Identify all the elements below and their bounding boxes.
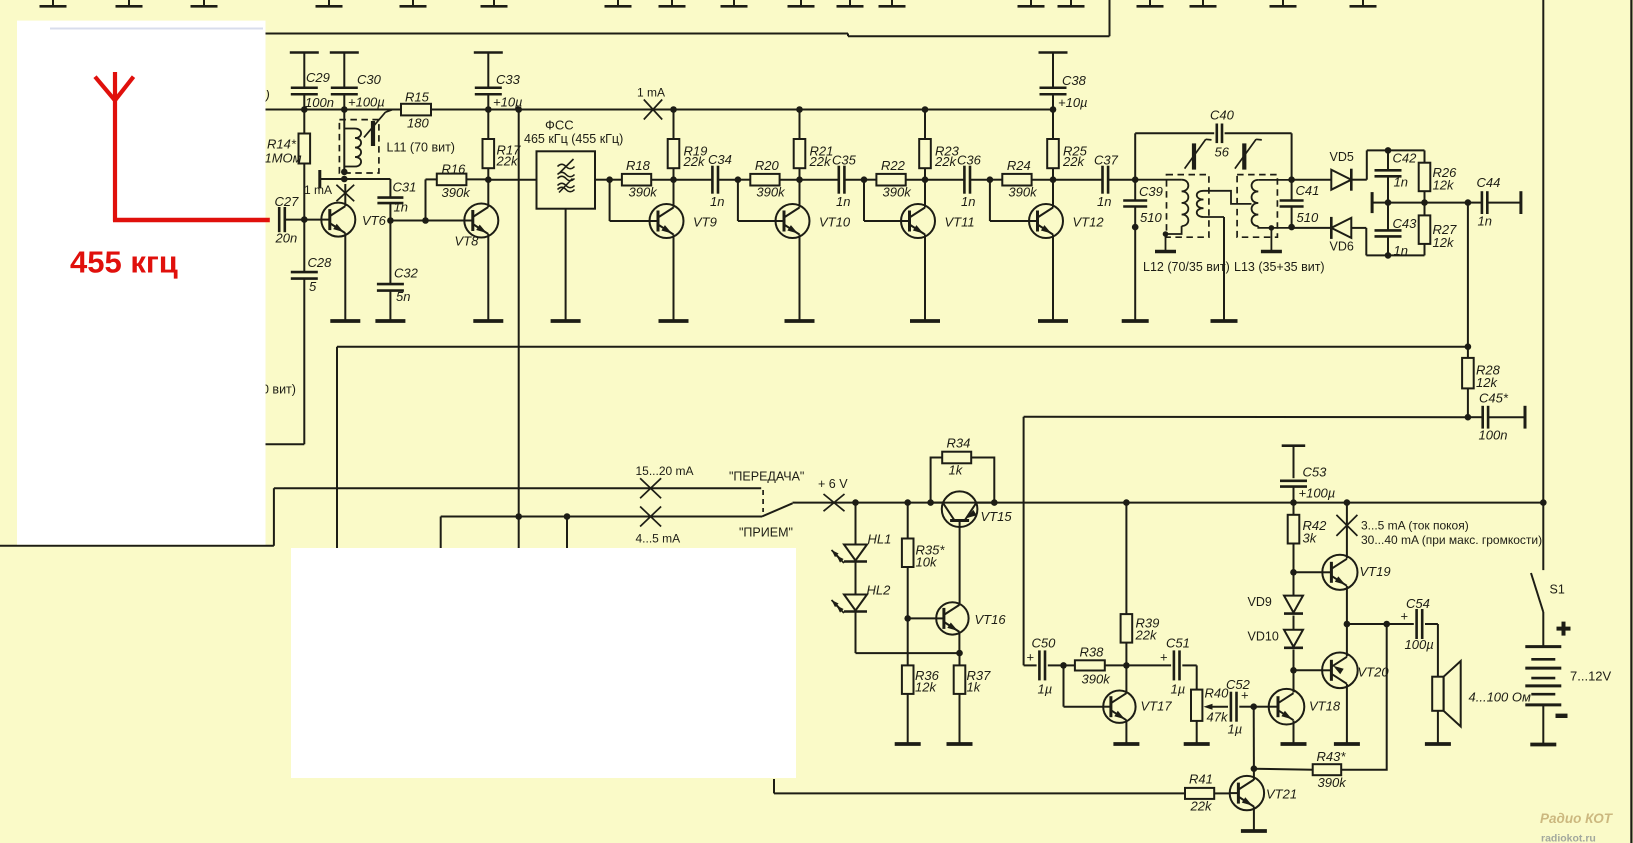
text fragment of covered coil label: [264, 88, 270, 103]
svg-text:510: 510: [1140, 210, 1162, 225]
wire main supply bus y=109.5: [266, 109, 1054, 111]
resistor R21: [794, 110, 834, 180]
wire volume line y=417: [1024, 417, 1468, 666]
svg-text:10k: 10k: [916, 555, 938, 570]
svg-text:0 вит): 0 вит): [262, 383, 296, 397]
node HL chain top: [852, 499, 859, 506]
svg-text:1n: 1n: [836, 194, 850, 209]
text 3...5 mA (ток покоя): [1361, 519, 1469, 533]
node bus L11: [341, 106, 348, 113]
svg-text:R20: R20: [755, 158, 780, 173]
wire VT20 base: [1294, 669, 1322, 671]
wire second feed down: [566, 517, 568, 550]
node R35 top: [904, 499, 911, 506]
svg-text:VT17: VT17: [1141, 699, 1173, 714]
wire VT19 base from R42 node: [1294, 571, 1323, 573]
ground VT6: [330, 319, 360, 323]
wire VT10 collector: [799, 180, 801, 208]
svg-text:C30: C30: [357, 72, 382, 87]
ground VT9: [659, 319, 689, 323]
resistor R18: [610, 158, 674, 200]
node VT9 collector: [670, 176, 677, 183]
resistor R25: [1047, 110, 1087, 180]
wire VT8 collector: [487, 180, 489, 207]
wire VT6 emitter to ground: [344, 233, 346, 321]
node supply to switch: [1540, 499, 1547, 506]
wire VT20 emitter up: [1346, 624, 1348, 657]
node output VT19 VT20: [1344, 621, 1351, 628]
wire jog to VT10 base: [738, 180, 776, 221]
svg-text:+: +: [1241, 688, 1249, 703]
svg-text:1 mA: 1 mA: [304, 183, 332, 197]
svg-text:22k: 22k: [934, 154, 957, 169]
wiper arrow R40 from C52: [1204, 704, 1229, 710]
node VT12 collector: [1050, 176, 1057, 183]
svg-text:22k: 22k: [683, 154, 706, 169]
transformer L13: [1237, 175, 1292, 251]
svg-text:+100µ: +100µ: [348, 95, 385, 110]
wire base VT6: [304, 219, 321, 221]
capacitor C30: [330, 53, 385, 110]
svg-text:+: +: [1027, 650, 1035, 665]
transistor VT17: [1103, 691, 1172, 723]
wire VT16 emitter: [958, 632, 960, 653]
switch S1: [1531, 503, 1565, 646]
ground link common: [1211, 319, 1238, 323]
terminal after C44: [1519, 191, 1522, 214]
svg-text:510: 510: [1297, 210, 1319, 225]
wire VT17 collector: [1125, 665, 1127, 693]
text battery minus: [1556, 714, 1568, 718]
resistor R15: [401, 90, 431, 131]
wire VT21 collector: [1253, 769, 1255, 780]
svg-text:R18: R18: [626, 158, 651, 173]
transistor VT12: [1029, 204, 1104, 238]
svg-text:VT19: VT19: [1360, 564, 1391, 579]
wire L11 node to C31: [344, 179, 390, 197]
resistor R17: [483, 110, 522, 180]
text L13 label: [1234, 260, 1325, 274]
measuring point X 15-20 mA: [636, 464, 694, 498]
wire C39 to ground: [1134, 227, 1136, 321]
antenna symbol (red): [95, 72, 270, 221]
svg-text:VD5: VD5: [1330, 150, 1354, 164]
capacitor C32: [377, 221, 419, 322]
wire VT8 emitter to ground: [487, 234, 489, 321]
ground C32: [375, 319, 405, 323]
resistor R24: [990, 158, 1053, 200]
node C40 right: [1288, 176, 1295, 183]
resistor R28: [1462, 347, 1501, 418]
transistor VT16: [936, 602, 1006, 634]
resistor R35: [902, 503, 945, 619]
node C36 out: [987, 176, 994, 183]
svg-text:VT6: VT6: [362, 213, 387, 228]
transformer L12: [1135, 175, 1251, 251]
svg-text:22k: 22k: [496, 154, 519, 169]
node C37 out: [1132, 176, 1139, 183]
wire long AGC return y=347: [337, 347, 1468, 549]
svg-text:HL2: HL2: [867, 583, 892, 598]
text covered coil label 0 вит): [262, 383, 296, 397]
transistor VT19: [1322, 555, 1390, 590]
svg-text:"ПРИЕМ": "ПРИЕМ": [739, 526, 793, 540]
capacitor C54: [1387, 596, 1438, 652]
node R26 R27 junction: [1421, 199, 1428, 206]
svg-text:1k: 1k: [949, 463, 964, 478]
resistor R14: [265, 110, 311, 220]
wire C50 node to VT17 base: [1064, 665, 1104, 706]
svg-text:R34: R34: [947, 436, 971, 451]
svg-text:12k: 12k: [1433, 178, 1455, 193]
diode VD6: [1292, 217, 1354, 254]
svg-text:C29: C29: [306, 70, 330, 85]
svg-text:VT10: VT10: [819, 215, 851, 230]
ground VT20: [1334, 742, 1360, 746]
svg-text:"ПЕРЕДАЧА": "ПЕРЕДАЧА": [729, 470, 804, 484]
transistor VT9: [650, 204, 717, 238]
svg-text:C32: C32: [394, 266, 419, 281]
node bus R14: [301, 106, 308, 113]
capacitor C44: [1468, 175, 1521, 229]
node feed-down junction: [515, 513, 522, 520]
svg-text:C37: C37: [1094, 153, 1119, 168]
svg-text:VD9: VD9: [1248, 595, 1272, 609]
node output to C54 and R43: [1383, 621, 1390, 628]
white mask box upper-left: [17, 21, 266, 545]
wire VD6 to detector bottom rail: [1351, 228, 1424, 256]
wire VD5 to detector top rail: [1351, 150, 1424, 179]
ground VT17: [1113, 742, 1139, 746]
svg-text:VT20: VT20: [1358, 665, 1390, 680]
measuring point X 1mA at VT6: [304, 183, 354, 201]
node R16 base leg: [422, 217, 429, 224]
transistor VT10: [776, 204, 851, 238]
svg-text:C33: C33: [496, 72, 521, 87]
node R35 bottom VT16 base: [904, 615, 911, 622]
svg-text:22k: 22k: [1062, 154, 1085, 169]
svg-text:C28: C28: [308, 255, 333, 270]
capacitor C41: [1280, 180, 1320, 227]
resistor R27: [1419, 203, 1457, 256]
resistor R39: [1121, 503, 1160, 666]
svg-text:390k: 390k: [442, 185, 472, 200]
diode VD9: [1248, 572, 1304, 613]
watermark Радио КОТ: [1540, 811, 1614, 843]
capacitor C52: [1226, 677, 1254, 737]
svg-text:C36: C36: [957, 153, 982, 168]
svg-text:R14*: R14*: [267, 137, 297, 152]
svg-text:R41: R41: [1189, 772, 1213, 787]
node R28 top: [1465, 343, 1472, 350]
svg-text:+: +: [1160, 650, 1168, 665]
svg-text:30...40 mA (при макс. громкост: 30...40 mA (при макс. громкости): [1361, 533, 1542, 547]
wire jog to VT11 base: [864, 180, 901, 221]
svg-text:HL1: HL1: [868, 532, 892, 547]
resistor R38: [1064, 645, 1127, 687]
svg-text:C43: C43: [1393, 216, 1418, 231]
resistor R16: [426, 162, 489, 221]
node R39 top: [1123, 499, 1130, 506]
svg-text:VT8: VT8: [455, 234, 480, 249]
svg-text:1n: 1n: [394, 200, 408, 215]
svg-text:22k: 22k: [809, 154, 832, 169]
svg-text:C51: C51: [1166, 636, 1190, 651]
node R34 right: [991, 499, 998, 506]
wire detector output down: [1467, 203, 1469, 347]
node bus R25: [1050, 106, 1057, 113]
wire VT15 emitter right: [976, 502, 994, 504]
svg-text:C40: C40: [1210, 108, 1235, 123]
capacitor C37: [1053, 153, 1135, 210]
resistor R23: [919, 110, 959, 180]
node VT10 collector: [796, 176, 803, 183]
faint scan artifact line in white box: [50, 28, 263, 30]
svg-text:+: +: [1401, 609, 1409, 624]
LED HL1: [832, 503, 892, 563]
transistor VT21: [1230, 776, 1297, 810]
svg-text:180: 180: [407, 116, 429, 131]
ground L13: [1261, 250, 1282, 253]
node VT11 collector: [922, 176, 929, 183]
node VT19 collector top: [1344, 499, 1351, 506]
ground VT10: [785, 319, 815, 323]
svg-text:+ 6 V: + 6 V: [818, 477, 848, 491]
node C52 out: [1250, 703, 1257, 710]
ground battery: [1530, 743, 1556, 747]
wire VT11 collector: [924, 180, 926, 208]
svg-text:R43*: R43*: [1317, 749, 1347, 764]
text battery plus: [1557, 622, 1571, 636]
text ПРИЕМ: [739, 526, 793, 540]
svg-text:L13 (35+35 вит): L13 (35+35 вит): [1234, 260, 1325, 274]
svg-text:100n: 100n: [1479, 428, 1508, 443]
node C41 bottom: [1288, 224, 1295, 231]
wire VT12 emitter to ground: [1052, 235, 1054, 322]
wire base row VT8: [390, 220, 464, 222]
svg-text:1µ: 1µ: [1171, 682, 1186, 697]
text 4...100 Ом: [1469, 690, 1531, 705]
svg-text:4...100 Ом: 4...100 Ом: [1469, 690, 1531, 705]
svg-text:C27: C27: [275, 194, 300, 209]
node VT21 collector: [1251, 765, 1258, 772]
svg-text:1МОм: 1МОм: [265, 151, 302, 166]
ground VT18: [1281, 742, 1307, 746]
svg-text:C44: C44: [1477, 175, 1501, 190]
resistor R37: [954, 653, 991, 744]
wire VT6 collector with X: [344, 184, 346, 206]
capacitor C29: [290, 53, 334, 111]
capacitor C39: [1123, 180, 1163, 227]
diode VD10: [1248, 616, 1304, 648]
transistor VT15: [942, 491, 1013, 603]
wire VT16 base: [908, 617, 937, 619]
node bus R23: [922, 106, 929, 113]
potentiometer R40: [1191, 665, 1229, 744]
resistor R19: [668, 110, 708, 180]
ground VT8: [473, 319, 503, 323]
wire jog to VT9 base: [610, 180, 650, 221]
wire VT18 base: [1254, 706, 1269, 708]
resistor R26: [1419, 150, 1457, 202]
measuring point X 1mA on bus: [637, 86, 665, 120]
svg-text:390k: 390k: [629, 185, 659, 200]
resistor R42: [1288, 503, 1327, 573]
top frame outline of cut-off upper schematic: [266, 0, 1110, 36]
text ПЕРЕДАЧА: [729, 470, 804, 484]
svg-text:1n: 1n: [710, 194, 724, 209]
transistor VT8: [455, 204, 499, 249]
svg-text:4...5 mA: 4...5 mA: [636, 532, 681, 546]
wire FSS output: [595, 179, 610, 181]
ground L12: [1155, 250, 1176, 253]
ground VT21: [1241, 829, 1267, 833]
node bus feed-down: [515, 106, 522, 113]
wire VT19 collector with X: [1346, 503, 1348, 559]
node bus R21: [796, 106, 803, 113]
svg-text:VT15: VT15: [981, 509, 1013, 524]
wire C28 into covered block: [266, 443, 305, 445]
wire VT19 emitter to output node: [1346, 586, 1348, 624]
wire VT18 emitter: [1293, 721, 1295, 745]
svg-text:5n: 5n: [396, 289, 410, 304]
measuring point X 4-5 mA: [640, 507, 661, 527]
node C34 out: [735, 176, 742, 183]
svg-text:VT9: VT9: [693, 215, 717, 230]
filter FSS box: [537, 151, 596, 208]
node L11 bottom: [341, 169, 348, 176]
capacitor C33: [474, 53, 523, 110]
measuring point X VT19: [1336, 515, 1357, 536]
wire switch common +6V: [793, 502, 1544, 504]
svg-text:1µ: 1µ: [1228, 722, 1243, 737]
svg-text:VD10: VD10: [1248, 630, 1279, 644]
text L11 label: [387, 141, 455, 155]
svg-text:1n: 1n: [1097, 194, 1111, 209]
capacitor C43: [1375, 203, 1418, 258]
svg-text:C39: C39: [1139, 184, 1163, 199]
capacitor C27: [275, 194, 305, 246]
node R28 bottom: [1465, 414, 1472, 421]
diode VD5: [1292, 150, 1354, 191]
top row cut-off ground symbols: [40, 0, 1377, 6]
capacitor C28: [291, 220, 332, 445]
svg-text:7...12V: 7...12V: [1570, 669, 1612, 684]
node second feed: [564, 513, 571, 520]
right page border: [1630, 0, 1632, 843]
node VD10 VT20 base: [1290, 667, 1297, 674]
resistor R43 feedback: [1254, 624, 1387, 790]
svg-text:22k: 22k: [1135, 628, 1158, 643]
terminal bar to covered winding: [320, 170, 345, 188]
capacitor C31: [377, 180, 416, 221]
svg-text:15...20 mA: 15...20 mA: [636, 464, 694, 478]
svg-text:C41: C41: [1296, 183, 1320, 198]
svg-text:455 кгц: 455 кгц: [70, 245, 178, 280]
text 7...12V: [1570, 669, 1612, 684]
capacitor C38: [1039, 53, 1088, 111]
node FSS output: [606, 176, 613, 183]
node VT8 collector: [485, 176, 492, 183]
text ФСС: [545, 118, 574, 133]
white mask box lower: [291, 548, 796, 778]
wire VT11 emitter to ground: [924, 235, 926, 322]
node L12 primary ground: [1163, 231, 1169, 237]
node C27 base: [301, 216, 308, 223]
svg-text:+10µ: +10µ: [1058, 95, 1088, 110]
svg-text:3...5 mA (ток покоя): 3...5 mA (ток покоя): [1361, 519, 1469, 533]
svg-text:56: 56: [1215, 145, 1230, 160]
svg-text:1n: 1n: [1394, 175, 1408, 190]
node L13 ground leg: [1269, 225, 1275, 231]
capacitor C51: [1126, 636, 1196, 697]
LED HL2: [832, 562, 892, 613]
svg-text:390k: 390k: [1318, 775, 1348, 790]
terminal detector mid left: [1372, 192, 1388, 213]
ground speaker: [1425, 742, 1451, 746]
svg-text:Радио КОТ: Радио КОТ: [1540, 811, 1614, 826]
svg-text:VT21: VT21: [1266, 787, 1297, 802]
text 465 кГц (455 кГц): [524, 132, 623, 146]
transistor VT11: [901, 204, 975, 238]
svg-text:+100µ: +100µ: [1299, 486, 1336, 501]
svg-text:1n: 1n: [1478, 214, 1492, 229]
node C39 bottom: [1132, 224, 1139, 231]
svg-text:R22: R22: [881, 158, 906, 173]
wire FSS input: [488, 179, 536, 181]
resistor R41: [774, 772, 1230, 814]
svg-text:1µ: 1µ: [1038, 682, 1053, 697]
node C35 out: [861, 176, 868, 183]
switch mode lever: [762, 490, 793, 517]
node bus R19: [670, 106, 677, 113]
svg-text:390k: 390k: [883, 185, 913, 200]
svg-text:VT18: VT18: [1309, 699, 1341, 714]
wire VT17 emitter: [1125, 720, 1127, 744]
wire peredacha supply y=488: [0, 488, 761, 546]
svg-text:C31: C31: [393, 180, 417, 195]
svg-text:1k: 1k: [967, 680, 982, 695]
node L11 output: [341, 176, 348, 183]
capacitor C34: [674, 152, 738, 209]
svg-text:VT12: VT12: [1073, 215, 1105, 230]
svg-text:S1: S1: [1550, 583, 1565, 597]
wire feed-down below: [518, 517, 520, 550]
wire link winding common to ground: [1223, 217, 1225, 321]
text L12 label: [1143, 260, 1230, 274]
wire VT15 collector left: [931, 502, 943, 504]
node VT17 collector: [1123, 662, 1130, 669]
svg-text:100n: 100n: [305, 95, 334, 110]
transistor VT6: [321, 203, 386, 237]
node C53 bottom: [1290, 499, 1297, 506]
terminal after C45: [1524, 406, 1527, 429]
svg-text:20n: 20n: [275, 231, 298, 246]
svg-text:1n: 1n: [1394, 243, 1408, 258]
resistor R22: [864, 158, 925, 200]
ground VT11: [910, 319, 940, 323]
wire VT12 collector: [1052, 180, 1054, 208]
ground VT12: [1038, 319, 1068, 323]
text 455 кгц (red): [70, 245, 178, 280]
text 4...5 mA: [636, 532, 681, 546]
svg-text:390k: 390k: [756, 185, 786, 200]
speaker: [1432, 624, 1461, 744]
ground R37: [947, 742, 973, 746]
svg-text:1 mA: 1 mA: [637, 86, 665, 100]
wire bus feed-down left: [518, 110, 520, 517]
ground R36: [895, 742, 921, 746]
